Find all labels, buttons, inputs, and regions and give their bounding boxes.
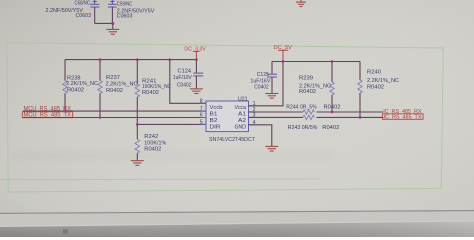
junction at cap ground node bbox=[111, 22, 114, 25]
resistor R237 bbox=[98, 60, 102, 118]
wire A1 row to R244 bbox=[249, 111, 304, 113]
junction rail at DC_5V drop bbox=[282, 60, 285, 63]
bezel tab bbox=[63, 229, 68, 233]
faint grid line bbox=[0, 178, 320, 181]
power DC_5V bbox=[274, 45, 293, 61]
ground below R242 bbox=[131, 161, 144, 166]
wire R243 to IC_RS_485_TX bbox=[317, 116, 384, 118]
resistor R244 (series) bbox=[303, 110, 314, 114]
faint reflection band bbox=[12, 151, 332, 160]
ground below C124 bbox=[190, 89, 203, 94]
capacitor C125 bbox=[267, 62, 277, 94]
wire C58 lead down bbox=[94, 7, 96, 23]
junction R240 on TX wire bbox=[359, 116, 362, 119]
ground below U21 GND bbox=[265, 146, 278, 151]
power DC_3.3V bbox=[184, 47, 206, 60]
resistor R241 bbox=[135, 60, 139, 125]
wire MCU_RS_485_RX bbox=[23, 110, 206, 112]
wire joining caps bbox=[95, 22, 113, 24]
capacitor C59 bbox=[108, 0, 117, 7]
wire C59 lead down bbox=[111, 7, 113, 23]
U21 left pin stubs bbox=[200, 103, 207, 124]
junction rail at C124 bbox=[195, 58, 198, 61]
resistor R240 bbox=[358, 62, 362, 118]
junction rail at R241 bbox=[136, 58, 139, 61]
resistor R238 bbox=[63, 60, 67, 111]
op-amp ic U21 body bbox=[206, 101, 249, 132]
wire 3.3V rail bbox=[65, 59, 196, 61]
junction R237 on TX wire bbox=[99, 116, 102, 119]
resistor R239 bbox=[330, 62, 334, 113]
wire MCU_RS_485_TX bbox=[23, 117, 206, 119]
wire R244 to IC_RS_485_RX bbox=[317, 111, 384, 113]
capacitor C124 bbox=[193, 60, 203, 89]
wire GND pin to ground bbox=[249, 125, 272, 146]
ground below C125 bbox=[265, 94, 278, 99]
junction R239 on RX wire bbox=[331, 111, 334, 114]
net label IC_RS_485_TX (selected) bbox=[382, 114, 423, 120]
junction R238 on RX wire bbox=[64, 110, 67, 113]
junction rail at Vccb drop bbox=[168, 58, 171, 61]
monitor bezel bbox=[0, 222, 474, 238]
wire Vccb drop from rail bbox=[170, 60, 206, 104]
schematic sheet border bbox=[7, 43, 443, 192]
wire 5V rail bbox=[272, 61, 360, 63]
wire to ground bbox=[112, 23, 114, 29]
resistor R243 (series) bbox=[303, 115, 314, 119]
capacitor C58 bbox=[90, 0, 99, 7]
ground below C58/C59 bbox=[106, 29, 119, 34]
net label MCU_RS_485_TX (selected) bbox=[22, 112, 72, 118]
resistor R242 bbox=[135, 124, 139, 160]
wire Vcca to 5V rail bbox=[249, 62, 284, 106]
junction R241/R242 on DIR wire bbox=[136, 123, 139, 126]
U21 right pin stubs bbox=[249, 106, 256, 125]
junction rail at R239 bbox=[331, 60, 334, 63]
app window bottom edge line bbox=[0, 211, 474, 214]
junction rail at R237 bbox=[99, 58, 102, 61]
taskbar strip bbox=[0, 211, 474, 227]
ground top right (cut off) bbox=[296, 0, 306, 7]
wire DIR row bbox=[137, 123, 206, 125]
wire A2 row to R243 bbox=[249, 116, 304, 118]
